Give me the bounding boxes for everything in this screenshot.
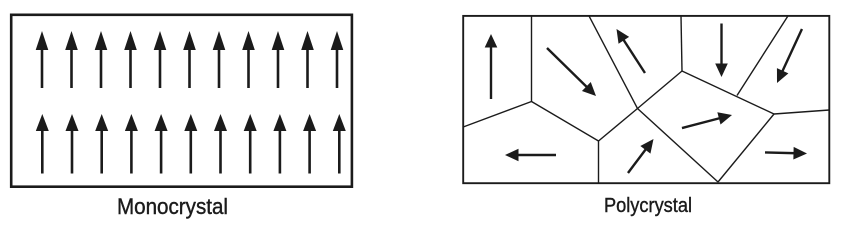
svg-text:Monocrystal: Monocrystal xyxy=(117,194,228,219)
grain boundary L-I xyxy=(718,114,774,182)
grain boundary E-I xyxy=(638,109,719,183)
grain arrow down-right xyxy=(543,44,601,101)
grain boundary L-right xyxy=(774,110,829,114)
grain boundary B-C xyxy=(463,102,531,128)
grain boundary K-J xyxy=(737,16,788,96)
grain boundary B-D xyxy=(532,102,599,142)
svg-text:Polycrystal: Polycrystal xyxy=(604,195,692,217)
grain arrow right xyxy=(765,146,807,160)
grain arrow up-left xyxy=(611,26,650,77)
grain boundary A-B vertical xyxy=(531,16,533,102)
grain boundary D-F vertical xyxy=(598,141,600,183)
grain boundary E-H xyxy=(638,71,683,109)
monocrystal box xyxy=(11,15,352,187)
grain boundary H-L xyxy=(682,71,774,114)
grain arrow down-left xyxy=(771,26,807,85)
grain arrow right-up xyxy=(680,109,733,134)
monocrystal arrows row 2 xyxy=(36,114,49,174)
grain arrow left xyxy=(505,149,556,162)
polycrystal box xyxy=(463,16,829,183)
grain boundary H-top xyxy=(681,16,682,71)
grain boundary G-E xyxy=(589,16,638,109)
monocrystal arrows row 1 xyxy=(36,31,49,88)
grain boundary D-E xyxy=(599,109,638,142)
grain arrow down xyxy=(715,24,728,78)
grain arrow up-right xyxy=(623,135,659,177)
grain arrow up xyxy=(485,34,498,99)
